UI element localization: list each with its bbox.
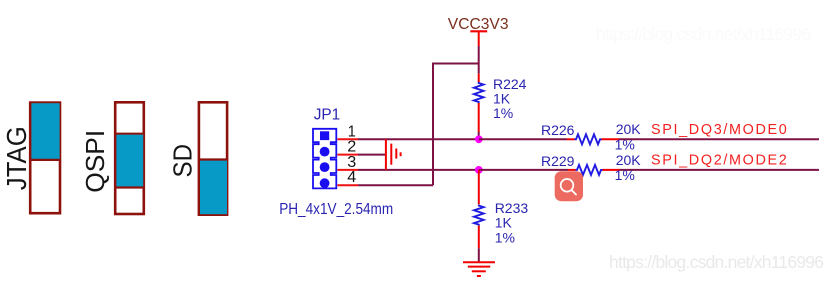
junction node pin1/R224/R226 [475, 135, 483, 143]
svg-text:QSPI: QSPI [80, 130, 110, 193]
svg-text:R229: R229 [541, 153, 575, 169]
switch SD body [199, 102, 227, 214]
svg-text:JP1: JP1 [314, 107, 341, 124]
pin 2 stub [337, 154, 358, 156]
pin 1 stub [337, 138, 358, 140]
svg-text:R233: R233 [495, 200, 529, 216]
junction node pin3/R229/R233 [475, 166, 483, 174]
svg-text:4: 4 [347, 169, 356, 186]
wire R229 to right edge [620, 169, 820, 171]
connector JP1 outline [313, 129, 336, 189]
svg-text:1%: 1% [615, 167, 635, 183]
switch JTAG slider [31, 103, 59, 159]
resistor R229 [568, 169, 576, 171]
wire pin1 row [358, 138, 479, 140]
svg-text:SD: SD [168, 144, 198, 178]
wire pin2 row [358, 154, 386, 156]
switch QSPI slider [116, 134, 143, 187]
switch JTAG body [30, 103, 60, 214]
ground symbol at JP1 pin2 (rotated) [386, 139, 401, 169]
svg-text:1K: 1K [495, 215, 513, 231]
svg-text:20K: 20K [616, 152, 642, 168]
wire node2 to R229 [479, 169, 568, 171]
JP1 pin 3 dot [320, 162, 330, 172]
JP1 pin 1 square [320, 131, 329, 140]
pin 4 stub [337, 184, 358, 186]
svg-text:20K: 20K [616, 121, 642, 137]
svg-text:https://blog.csdn.net/xh116996: https://blog.csdn.net/xh116996 [609, 252, 824, 272]
JP1 pin 4 dot [320, 178, 330, 188]
svg-text:R226: R226 [541, 122, 575, 138]
svg-text:1%: 1% [493, 105, 513, 121]
resistor R226 [567, 138, 575, 140]
wire pin3 row [358, 169, 479, 171]
svg-text:PH_4x1V_2.54mm: PH_4x1V_2.54mm [279, 201, 393, 218]
wire pin4 row [358, 184, 433, 186]
JP1 pin 2 dot [320, 147, 330, 157]
pin 3 stub [337, 169, 358, 171]
switch SD slider [200, 160, 227, 214]
wire node1 to R226 [479, 138, 567, 140]
switch QSPI body [115, 102, 144, 214]
resistor R224 [478, 74, 480, 82]
ground symbol bottom [463, 262, 495, 276]
magnifier icon overlay [555, 171, 583, 201]
resistor R233 [478, 170, 480, 204]
svg-text:JTAG: JTAG [1, 126, 32, 190]
svg-text:1%: 1% [615, 136, 635, 152]
wire branch pin4 to VCC rail [433, 64, 479, 186]
wire VCC rail down [478, 46, 480, 74]
svg-text:1%: 1% [495, 229, 515, 245]
wire R226 to right edge [619, 138, 819, 140]
svg-text:https://blog.csdn.net/xh116996: https://blog.csdn.net/xh116996 [596, 24, 811, 44]
